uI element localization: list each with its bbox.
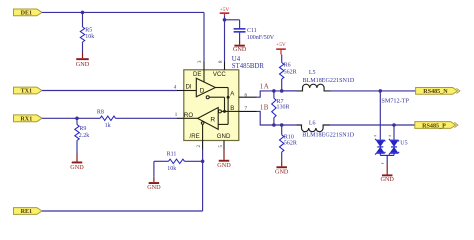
svg-text:6: 6: [244, 94, 247, 99]
pin 7 B: [239, 107, 257, 112]
svg-text:+5V: +5V: [276, 42, 286, 48]
wire to C11: [225, 20, 240, 28]
junction DE1/R5: [81, 11, 85, 15]
svg-text:2: 2: [197, 145, 202, 148]
svg-text:GND: GND: [275, 168, 289, 175]
resistor R8: [97, 110, 116, 130]
ground at pin 5: [217, 150, 231, 170]
svg-text:ST485BDR: ST485BDR: [232, 63, 265, 70]
junction R6/A row: [280, 89, 284, 93]
IC U4 ST485BDR body: [184, 56, 265, 140]
svg-text:VCC: VCC: [213, 71, 226, 78]
svg-text:RS485_P: RS485_P: [422, 123, 446, 129]
svg-text:562R: 562R: [284, 70, 297, 76]
junction R7/B row: [272, 123, 276, 127]
svg-text:B: B: [230, 105, 234, 112]
wire RX1 to R8: [42, 117, 100, 119]
junction +5V/C11: [223, 18, 227, 22]
svg-text:DE: DE: [193, 71, 201, 78]
pin 1 RO: [175, 113, 184, 118]
pin 8 VCC: [219, 60, 225, 70]
svg-text:3: 3: [198, 60, 203, 63]
svg-text:GND: GND: [217, 162, 231, 169]
receiver buffer R: [184, 97, 239, 140]
svg-text:100nF/50V: 100nF/50V: [247, 35, 275, 41]
svg-text:R6: R6: [284, 63, 291, 69]
wire +5V to VCC pin: [224, 20, 226, 62]
wire L5 to RS485_N: [331, 90, 416, 92]
junction RX1/R9: [75, 117, 79, 121]
ground under R5: [76, 53, 90, 69]
svg-text:DI: DI: [186, 84, 192, 91]
port RE1: [14, 208, 43, 216]
svg-text:GND: GND: [380, 176, 394, 183]
port TX1: [14, 87, 43, 95]
svg-text:2.2k: 2.2k: [79, 133, 90, 139]
svg-text:D: D: [200, 88, 205, 95]
ground under C11: [233, 41, 247, 53]
ground under R11: [147, 177, 161, 191]
svg-text:TX1: TX1: [21, 89, 33, 95]
power +5V at VCC: [220, 7, 230, 20]
svg-text:RX1: RX1: [20, 117, 32, 123]
junction R7/A row: [272, 89, 276, 93]
resistor R9: [75, 118, 90, 153]
ground under R9: [70, 153, 84, 171]
svg-text:1B: 1B: [260, 103, 269, 111]
svg-text:562R: 562R: [284, 141, 297, 147]
resistor R7: [272, 91, 290, 125]
svg-text:GND: GND: [217, 133, 231, 140]
svg-text:4: 4: [174, 85, 177, 90]
power +5V at R6: [276, 42, 286, 54]
svg-text:R9: R9: [79, 126, 86, 132]
wire DE1 to DE pin: [42, 12, 204, 61]
svg-text:1k: 1k: [105, 123, 111, 129]
resistor R11: [154, 152, 203, 177]
wire R8 to RO pin: [116, 117, 178, 119]
net label 1B: [260, 103, 269, 111]
TVS diode array U5: [374, 91, 409, 164]
ferrite bead L5: [297, 70, 355, 91]
resistor R6: [280, 55, 297, 91]
wire L6 to RS485_P: [330, 124, 415, 126]
svg-text:L5: L5: [309, 70, 316, 76]
junction R11//RE: [201, 160, 205, 164]
resistor R10: [280, 125, 297, 162]
svg-text:RS485_N: RS485_N: [423, 89, 448, 95]
node A internal junction: [227, 96, 230, 99]
ferrite bead L6: [297, 120, 355, 138]
junction U5/A row: [379, 89, 383, 93]
ground under R10: [275, 162, 289, 175]
port RS485_N: [416, 88, 460, 96]
port RX1: [14, 115, 43, 123]
wire pin B to B row: [257, 111, 297, 125]
svg-text:SM712-TP: SM712-TP: [381, 98, 409, 105]
resistor R5: [80, 12, 94, 52]
svg-text:L6: L6: [309, 120, 316, 126]
wire pin A to A row: [257, 91, 298, 97]
svg-text:DE1: DE1: [21, 11, 33, 17]
svg-text:GND: GND: [76, 61, 90, 68]
junction U5/B row: [392, 123, 396, 127]
svg-text:GND: GND: [147, 184, 161, 191]
svg-text:R8: R8: [97, 110, 104, 116]
svg-text:130R: 130R: [277, 105, 290, 111]
svg-text:1: 1: [175, 113, 178, 118]
svg-text:R5: R5: [85, 28, 92, 34]
svg-text:U5: U5: [400, 141, 407, 147]
svg-text:10k: 10k: [167, 166, 176, 172]
svg-text:BLM18EG221SN1D: BLM18EG221SN1D: [302, 133, 354, 139]
svg-text:/RE: /RE: [190, 133, 200, 140]
svg-text:7: 7: [244, 107, 247, 112]
wire RE1 to /RE pin: [42, 150, 203, 212]
capacitor C11: [234, 28, 275, 41]
pin 4 DI: [174, 85, 184, 90]
svg-text:5: 5: [219, 145, 224, 148]
pin 3 DE: [198, 60, 204, 70]
svg-text:R: R: [210, 116, 215, 123]
ground under U5: [380, 163, 394, 183]
svg-text:R11: R11: [167, 152, 177, 158]
svg-text:BLM18EG221SN1D: BLM18EG221SN1D: [303, 78, 355, 84]
svg-text:GND: GND: [233, 46, 247, 53]
svg-text:1A: 1A: [260, 83, 269, 91]
svg-text:8: 8: [219, 60, 224, 63]
node B internal junction: [223, 110, 226, 113]
svg-text:C11: C11: [247, 28, 257, 34]
svg-text:10k: 10k: [85, 34, 94, 40]
pin 5 GND: [219, 141, 224, 150]
svg-text:RE1: RE1: [21, 209, 33, 215]
svg-text:GND: GND: [70, 164, 84, 171]
wire A row mid: [282, 90, 297, 92]
svg-text:+5V: +5V: [220, 7, 230, 13]
port RS485_P: [415, 122, 458, 130]
junction R10/B row: [280, 123, 284, 127]
pin 2 /RE: [197, 141, 202, 150]
port DE1: [14, 9, 43, 17]
pin 6 A: [239, 94, 257, 99]
net label 1A: [260, 83, 269, 91]
driver buffer D: [184, 70, 228, 112]
wire TX1 to DI pin: [42, 90, 177, 92]
